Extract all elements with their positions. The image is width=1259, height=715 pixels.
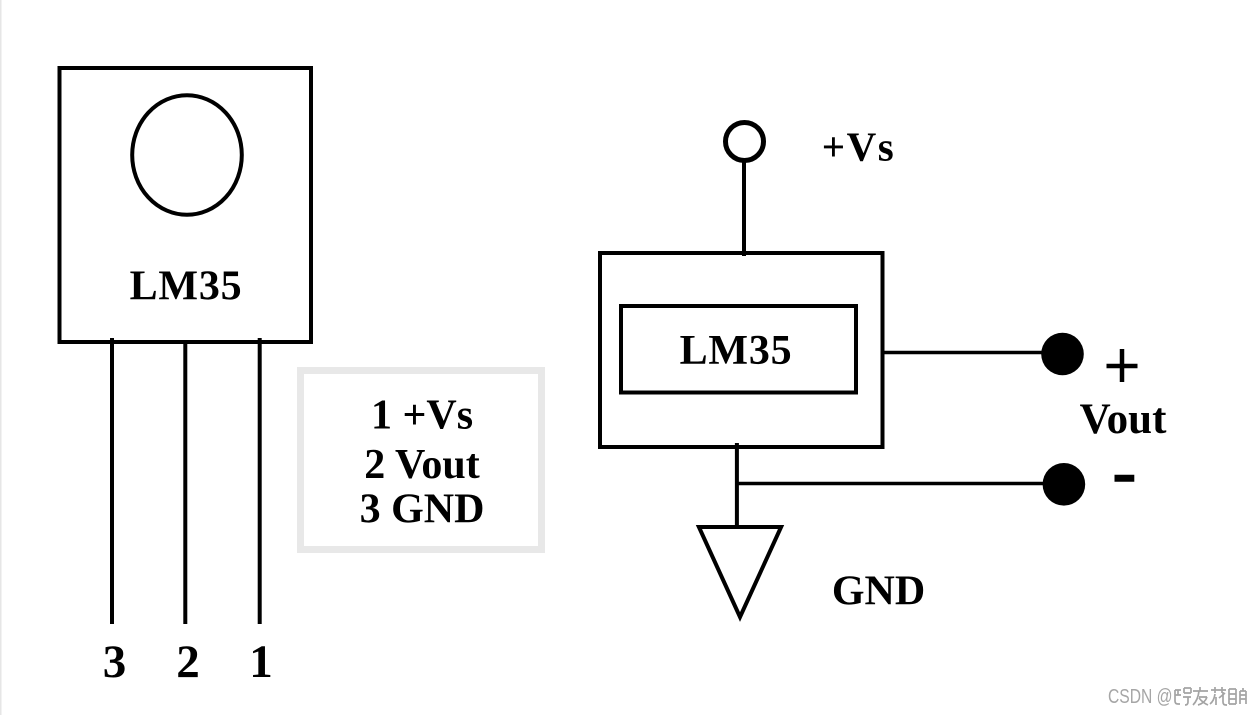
- wire from body bottom to ground: [735, 443, 739, 527]
- svg-text:+Vs: +Vs: [822, 124, 895, 170]
- wire junction to Vout- terminal: [735, 482, 1044, 486]
- LM35 package outline (TO-92 front view): [60, 68, 312, 342]
- minus sign at Vout-: [1115, 475, 1135, 482]
- char 雕: [1229, 688, 1246, 704]
- svg-text:2: 2: [176, 636, 200, 688]
- svg-text:CSDN @: CSDN @: [1108, 685, 1173, 708]
- svg-text:1 +Vs: 1 +Vs: [371, 393, 473, 439]
- svg-text:LM35: LM35: [680, 328, 793, 374]
- svg-text:2 Vout: 2 Vout: [364, 442, 480, 488]
- wire from body to Vout+ terminal: [884, 351, 1045, 355]
- char 友: [1193, 687, 1208, 705]
- ground symbol (triangle): [699, 527, 781, 617]
- sensor face circle on package: [132, 95, 242, 215]
- pin 2 lead: [183, 340, 187, 624]
- svg-text:LM35: LM35: [130, 264, 243, 310]
- Vout+ terminal (filled dot): [1041, 333, 1084, 376]
- svg-text:Vout: Vout: [1080, 396, 1168, 443]
- +Vs supply terminal (open circle): [726, 123, 764, 161]
- watermark CSDN @驴友花雕: [1108, 685, 1246, 708]
- char 驴: [1175, 688, 1191, 705]
- char 花: [1210, 687, 1227, 705]
- svg-text:3: 3: [103, 636, 127, 688]
- plus sign at Vout+: [1107, 364, 1138, 369]
- wire from +Vs terminal to LM35 body: [742, 163, 746, 257]
- svg-text:1: 1: [249, 636, 273, 688]
- svg-text:3 GND: 3 GND: [360, 487, 485, 533]
- LM35 symbol outer body: [600, 253, 883, 447]
- svg-text:GND: GND: [832, 569, 925, 615]
- pinout legend box: [301, 371, 542, 550]
- LM35 symbol inner box: [621, 306, 856, 393]
- Vout- terminal (filled dot): [1043, 463, 1086, 506]
- pin 3 lead: [110, 338, 114, 624]
- pin 1 lead: [258, 338, 262, 624]
